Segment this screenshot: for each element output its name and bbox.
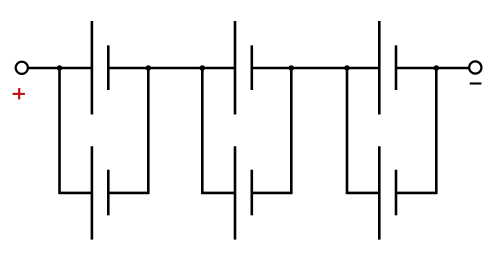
wire vertical at node 3 — [201, 67, 204, 194]
wire bottom: node 5 to cell B3b — [347, 192, 379, 195]
wire top: cell B2a to cell B3a — [252, 67, 379, 70]
wire bottom: cell B3b to node 6 — [396, 192, 436, 195]
cell B2a top battery: short plate — [251, 45, 254, 90]
node 5 junction dot — [344, 65, 350, 71]
wire vertical at node 2 — [147, 67, 150, 194]
terminal right (negative) — [469, 61, 481, 73]
wire bottom: cell B2b to node 4 — [252, 192, 291, 195]
wire vertical at node 6 — [435, 67, 438, 194]
cell B3a top battery: short plate — [395, 45, 398, 90]
cell B1b bottom battery: short plate — [107, 170, 110, 216]
node 6 junction dot — [434, 65, 440, 71]
cell B3b bottom battery: short plate — [395, 170, 398, 216]
cell B2a top battery: long plate — [234, 21, 237, 115]
minus label — [470, 82, 482, 84]
cell B3a top battery: long plate — [378, 21, 381, 115]
wire vertical at node 5 — [346, 67, 349, 194]
wire bottom: cell B1b to node 2 — [108, 192, 148, 195]
wire bottom: node 1 to cell B1b — [60, 192, 93, 195]
plus label — [13, 88, 25, 99]
wire bottom: node 3 to cell B2b — [202, 192, 235, 195]
node 1 junction dot — [57, 65, 63, 71]
cell B3b bottom battery: long plate — [378, 146, 381, 239]
terminal left (positive) — [16, 62, 28, 74]
cell B1b bottom battery: long plate — [91, 146, 94, 239]
cell B1a top battery: short plate — [107, 45, 110, 90]
wire top: cell B1a to cell B2a — [108, 67, 235, 70]
wire vertical at node 1 — [58, 67, 61, 194]
node 4 junction dot — [289, 65, 295, 71]
wire vertical at node 4 — [290, 67, 293, 194]
node 3 junction dot — [200, 65, 206, 71]
wire top: left terminal to cell B1a — [29, 67, 93, 70]
wire top: cell B3a to right terminal — [396, 67, 469, 70]
node 2 junction dot — [146, 65, 152, 71]
cell B2b bottom battery: long plate — [234, 146, 237, 239]
cell B1a top battery: long plate — [91, 21, 94, 115]
cell B2b bottom battery: short plate — [251, 170, 254, 216]
